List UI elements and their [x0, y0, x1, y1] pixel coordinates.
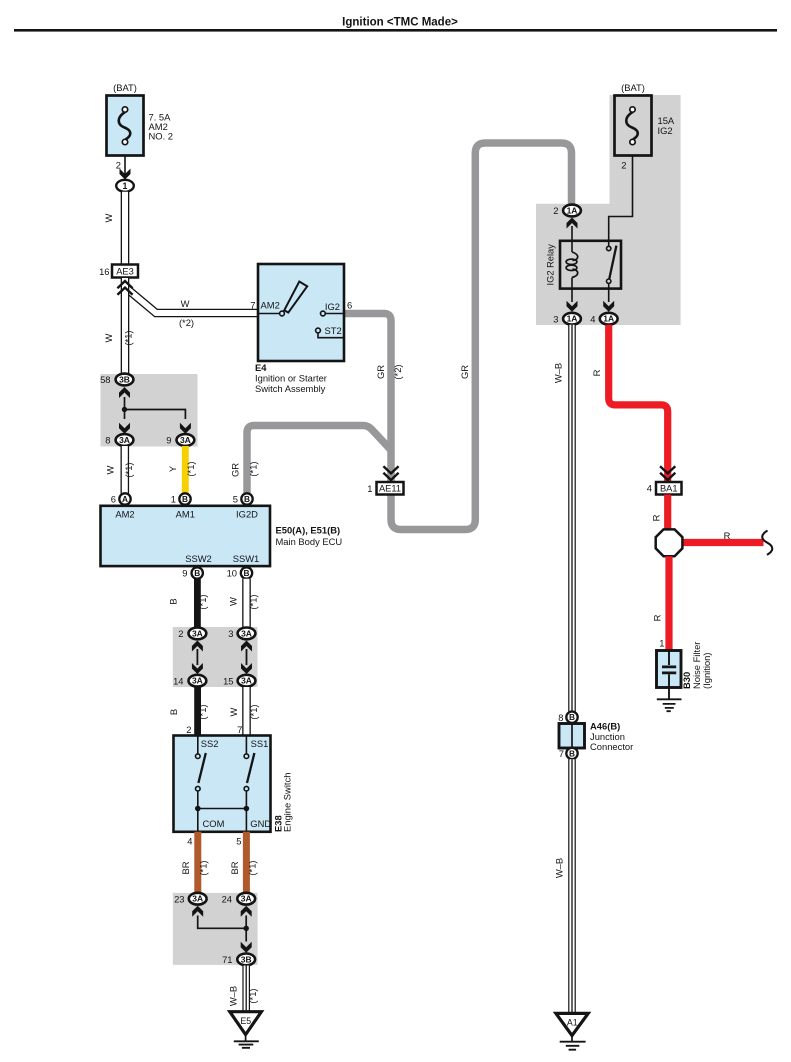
- svg-text:58: 58: [100, 374, 110, 385]
- svg-text:4: 4: [590, 313, 595, 324]
- svg-text:(*1): (*1): [198, 860, 209, 875]
- wire W from SSW1: [242, 579, 251, 628]
- svg-text:R: R: [652, 614, 663, 621]
- IG2 relay box: [560, 241, 621, 289]
- svg-text:5: 5: [233, 494, 238, 505]
- svg-text:1: 1: [659, 638, 664, 649]
- svg-text:B: B: [569, 748, 575, 758]
- svg-text:IG2D: IG2D: [236, 509, 258, 520]
- wire R relay pin 4 to BA1: [609, 325, 668, 482]
- svg-text:10: 10: [227, 568, 237, 579]
- svg-text:AE3: AE3: [116, 267, 134, 277]
- svg-text:15: 15: [223, 675, 233, 686]
- svg-text:E5: E5: [240, 1016, 251, 1026]
- ignition or starter switch E4 box: [258, 264, 344, 361]
- fuse AM2 symbol: [119, 112, 131, 140]
- svg-text:14: 14: [173, 675, 183, 686]
- main body ECU E50 box: [101, 506, 271, 566]
- svg-text:(*1): (*1): [248, 704, 259, 719]
- svg-text:SS1: SS1: [251, 738, 269, 749]
- svg-text:9: 9: [166, 435, 171, 446]
- wire GR branch to ECU IG2D: [247, 426, 391, 494]
- svg-text:7: 7: [237, 724, 242, 735]
- E4 switch lever: [284, 282, 307, 313]
- svg-text:(*1): (*1): [197, 594, 208, 609]
- E4 pin ST2: [316, 328, 321, 333]
- svg-text:2: 2: [553, 205, 558, 216]
- svg-text:W: W: [103, 333, 114, 342]
- svg-text:(*2): (*2): [179, 317, 194, 328]
- svg-text:GR: GR: [230, 463, 241, 477]
- svg-text:1A: 1A: [603, 314, 614, 324]
- arrow up into 3A pin 24: [241, 906, 252, 917]
- svg-text:NO. 2: NO. 2: [149, 131, 174, 142]
- svg-text:W: W: [105, 465, 116, 474]
- grey junction block region 2: [173, 627, 258, 687]
- svg-text:2: 2: [178, 628, 183, 639]
- svg-text:Ignition or Starter: Ignition or Starter: [255, 373, 327, 384]
- svg-text:SS2: SS2: [201, 738, 219, 749]
- svg-text:AM2: AM2: [115, 509, 134, 520]
- grey junction block region 1: [101, 374, 198, 447]
- fuse IG2 box: [615, 96, 652, 156]
- svg-text:B: B: [182, 494, 188, 504]
- svg-text:(*1): (*1): [123, 330, 134, 345]
- svg-text:BA1: BA1: [660, 484, 678, 494]
- fuse IG2 symbol: [626, 112, 638, 140]
- wire Y to ECU AM1: [182, 446, 189, 494]
- svg-text:7: 7: [559, 748, 564, 759]
- svg-text:Ignition <TMC Made>: Ignition <TMC Made>: [342, 17, 458, 29]
- wire GR from E4 IG2 to AE11: [344, 314, 391, 482]
- svg-text:AE11: AE11: [379, 484, 401, 494]
- svg-text:8: 8: [558, 712, 563, 723]
- svg-text:(*2): (*2): [392, 364, 403, 379]
- svg-text:3A: 3A: [119, 435, 130, 445]
- splice octagon: [656, 529, 683, 556]
- arrow into 3B pin 71: [241, 942, 252, 953]
- svg-text:(*1): (*1): [197, 704, 208, 719]
- svg-text:R: R: [651, 514, 662, 521]
- svg-text:BR: BR: [180, 861, 191, 874]
- svg-text:Switch Assembly: Switch Assembly: [255, 383, 326, 394]
- wire W-B relay to junction connector: [568, 325, 576, 712]
- double chevron into AE11: [383, 473, 398, 480]
- svg-text:COM: COM: [203, 818, 225, 829]
- svg-text:AM2: AM2: [261, 300, 280, 311]
- svg-text:W: W: [228, 707, 239, 716]
- title rule: [14, 29, 777, 32]
- wire and junction in block 1: [125, 397, 186, 419]
- svg-text:A1: A1: [567, 1018, 578, 1028]
- svg-text:2: 2: [186, 724, 191, 735]
- wire R BA1 to splice: [664, 495, 671, 530]
- svg-text:(*1): (*1): [248, 461, 259, 476]
- svg-text:B: B: [168, 598, 179, 604]
- svg-text:3: 3: [228, 628, 233, 639]
- wire B from SSW2: [194, 579, 201, 628]
- wires and junction in block 3: [198, 916, 247, 942]
- svg-text:R: R: [591, 369, 602, 376]
- arrow into connector 1: [120, 169, 131, 180]
- wire W down from AE3: [121, 278, 130, 374]
- fuse AM2 NO.2 box: [107, 96, 144, 156]
- wire fuse IG2 to relay: [609, 156, 633, 241]
- engine switch E38 box: [174, 736, 271, 832]
- switch SS2 contacts: [197, 736, 199, 754]
- wire BR from COM: [194, 832, 201, 893]
- common bus inside switch: [198, 809, 247, 832]
- svg-text:E50(A), E51(B): E50(A), E51(B): [276, 525, 341, 536]
- svg-text:Engine Switch: Engine Switch: [282, 773, 293, 832]
- svg-text:Connector: Connector: [590, 741, 633, 752]
- wire fuse to connector 1: [124, 156, 126, 176]
- svg-text:(*1): (*1): [247, 860, 258, 875]
- arrow into 3A pin 9: [180, 423, 191, 434]
- wire BR from GND: [243, 832, 250, 893]
- svg-text:71: 71: [222, 954, 232, 965]
- arrow into 3A pin 8: [119, 423, 130, 434]
- svg-text:1: 1: [123, 181, 128, 191]
- svg-text:AM1: AM1: [176, 509, 195, 520]
- svg-text:IG2: IG2: [325, 301, 340, 312]
- svg-text:3B: 3B: [241, 954, 252, 964]
- connector oval 1: [116, 180, 134, 192]
- wire W to ECU AM2: [121, 446, 130, 494]
- svg-text:W–B: W–B: [554, 858, 565, 878]
- svg-text:GR: GR: [459, 365, 470, 379]
- svg-text:3A: 3A: [180, 435, 191, 445]
- grey background region (IG2 relay / fuse area): [536, 95, 681, 325]
- svg-text:2: 2: [116, 160, 121, 171]
- relay pin 4 connector 1A: [608, 289, 610, 302]
- arrow up to relay pin 2: [567, 218, 578, 229]
- svg-text:R: R: [724, 530, 731, 541]
- svg-text:4: 4: [647, 483, 652, 494]
- wire R splice to right break: [680, 539, 764, 546]
- svg-text:B: B: [244, 568, 250, 578]
- svg-text:Y: Y: [167, 465, 178, 472]
- svg-text:A: A: [122, 494, 128, 504]
- relay pin 3 connector 1A: [571, 289, 573, 302]
- svg-text:Main Body ECU: Main Body ECU: [276, 536, 343, 547]
- wire W-B to ground E5: [242, 966, 250, 1013]
- noise filter B30 box: [657, 651, 682, 688]
- svg-text:(BAT): (BAT): [621, 82, 645, 93]
- relay switch contact: [608, 241, 610, 247]
- svg-text:3A: 3A: [192, 676, 203, 686]
- svg-text:E4: E4: [255, 362, 267, 373]
- double arrow pair left: [192, 641, 203, 652]
- svg-text:B: B: [244, 494, 250, 504]
- ground A1 triangle: [556, 1013, 588, 1035]
- ground symbol noise filter: [657, 699, 682, 711]
- svg-text:W: W: [228, 597, 239, 606]
- svg-text:(*1): (*1): [185, 461, 196, 476]
- svg-text:B: B: [569, 712, 575, 722]
- wire break symbol: [762, 531, 772, 555]
- wire GR from AE11 to IG2 relay: [391, 143, 572, 530]
- svg-text:9: 9: [182, 568, 187, 579]
- svg-text:(*1): (*1): [123, 462, 134, 477]
- svg-text:3A: 3A: [192, 894, 203, 904]
- svg-text:3A: 3A: [241, 894, 252, 904]
- ground symbol E5: [245, 1035, 247, 1041]
- double chevron into AE3: [117, 281, 132, 288]
- svg-text:(*1): (*1): [248, 594, 259, 609]
- svg-text:W: W: [181, 298, 190, 309]
- svg-text:6: 6: [347, 300, 352, 311]
- svg-text:SSW1: SSW1: [233, 553, 260, 564]
- svg-text:ST2: ST2: [325, 325, 342, 336]
- svg-text:W–B: W–B: [228, 986, 239, 1006]
- arrow up into 3B: [119, 387, 130, 398]
- svg-text:1: 1: [367, 483, 372, 494]
- svg-text:W–B: W–B: [553, 363, 564, 383]
- svg-text:3A: 3A: [192, 628, 203, 638]
- wire W fuse to AE3: [121, 192, 130, 265]
- relay coil: [571, 241, 573, 252]
- svg-text:1A: 1A: [567, 206, 578, 216]
- svg-text:4: 4: [187, 836, 192, 847]
- wire B to engine switch: [194, 687, 201, 736]
- svg-text:GR: GR: [375, 365, 386, 379]
- svg-text:16: 16: [99, 266, 109, 277]
- switch SS1 contacts: [245, 736, 247, 754]
- svg-text:IG2 Relay: IG2 Relay: [546, 244, 556, 286]
- svg-text:6: 6: [111, 494, 116, 505]
- branch wire W to ignition switch AM2: [126, 288, 259, 314]
- arrow up into 3A pin 23: [192, 906, 203, 917]
- double arrow pair right: [241, 641, 252, 652]
- ground symbol A1: [571, 1036, 573, 1042]
- svg-text:2: 2: [621, 160, 626, 171]
- svg-text:SSW2: SSW2: [185, 553, 212, 564]
- capacitor symbol in noise filter: [668, 651, 670, 666]
- svg-text:(*1): (*1): [247, 988, 258, 1003]
- svg-text:8: 8: [105, 435, 110, 446]
- svg-text:3B: 3B: [119, 375, 130, 385]
- svg-text:1A: 1A: [567, 314, 578, 324]
- svg-text:23: 23: [174, 893, 184, 904]
- double chevron into BA1: [660, 473, 675, 480]
- svg-text:3: 3: [553, 313, 558, 324]
- grey junction block region 3: [173, 893, 258, 965]
- svg-text:3A: 3A: [241, 628, 252, 638]
- svg-text:(Ignition): (Ignition): [701, 653, 712, 689]
- svg-text:5: 5: [236, 836, 241, 847]
- svg-text:B: B: [194, 568, 200, 578]
- svg-text:1: 1: [171, 494, 176, 505]
- junction connector A46 box: [559, 724, 585, 749]
- svg-text:(BAT): (BAT): [113, 82, 137, 93]
- svg-text:BR: BR: [229, 861, 240, 874]
- svg-text:GND: GND: [250, 818, 271, 829]
- svg-text:B: B: [168, 709, 179, 715]
- ground E5 triangle: [230, 1012, 262, 1035]
- svg-text:24: 24: [222, 893, 232, 904]
- svg-text:7: 7: [250, 300, 255, 311]
- svg-text:W: W: [103, 213, 114, 222]
- svg-text:3A: 3A: [241, 676, 252, 686]
- wire W-B junction connector to ground A1: [568, 759, 576, 1013]
- wire R splice to noise filter: [665, 556, 672, 650]
- wire W to engine switch: [242, 687, 251, 736]
- svg-text:IG2: IG2: [658, 125, 673, 136]
